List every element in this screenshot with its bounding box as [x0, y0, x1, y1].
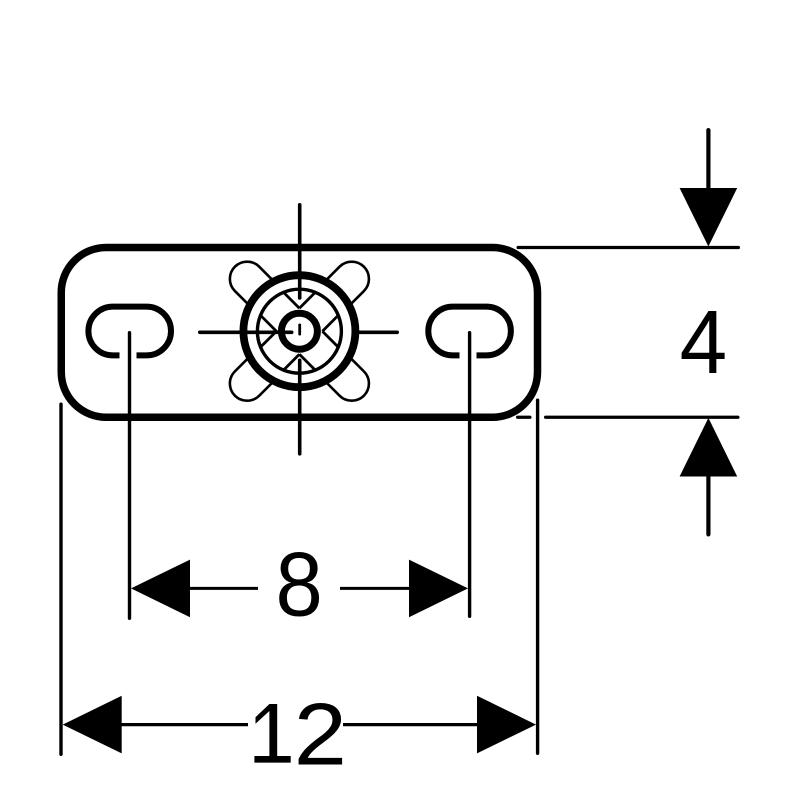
svg-text:2: 2 [294, 686, 347, 784]
svg-text:4: 4 [680, 292, 728, 392]
svg-text:8: 8 [276, 533, 323, 635]
